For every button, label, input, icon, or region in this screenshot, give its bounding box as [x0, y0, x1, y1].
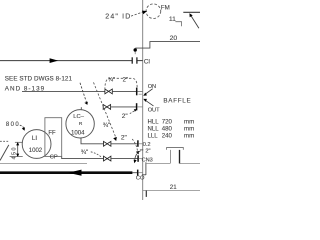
wire stub below dot [134, 52, 136, 54]
wire tank wall vertical [142, 0, 144, 200]
valve bowtie on line [105, 89, 112, 94]
svg-text:1004: 1004 [71, 129, 85, 136]
leader dashed 800 [20, 125, 24, 129]
wire lower horizontal left [0, 163, 87, 165]
end bar on nozzle line [136, 88, 138, 96]
svg-text:FM: FM [161, 5, 170, 12]
arrowhead long leader [113, 137, 117, 141]
dimension 450 arrow down [16, 154, 19, 158]
valve flange bar left on top pipe [131, 57, 133, 63]
svg-text:2": 2" [121, 134, 128, 141]
svg-text:¾": ¾" [81, 149, 89, 156]
svg-text:240: 240 [162, 133, 173, 140]
dimension 450 line [17, 143, 19, 156]
svg-text:480: 480 [162, 126, 173, 133]
svg-text:LI: LI [32, 135, 37, 142]
dimension 450 arrow up [16, 142, 19, 146]
svg-text:OUT: OUT [148, 108, 160, 114]
label HLL 720 mm [148, 119, 195, 140]
wire CN3 bottom tick [142, 174, 146, 176]
wire row2 stub [139, 158, 143, 160]
wire pipe tail [132, 172, 137, 174]
arrowhead of 24 ID leader [142, 11, 147, 15]
svg-text:mm: mm [184, 119, 194, 126]
leader ON [145, 89, 153, 95]
leader dashed 24 ID to FM [131, 12, 143, 16]
stub below line 21 [145, 191, 147, 197]
arrowhead leader to row2 [134, 160, 137, 164]
leader dashed note to LC [80, 83, 87, 103]
svg-text:2": 2" [122, 113, 129, 120]
leader long dashed diagonal [94, 82, 117, 138]
arrowhead on line 11 leader [189, 13, 192, 17]
svg-text:21: 21 [170, 184, 177, 191]
svg-text:1002: 1002 [29, 148, 43, 154]
wire CN3 drop vertical [145, 162, 147, 175]
wire bottom line 21 [143, 190, 200, 192]
wire after bowtie [112, 90, 136, 92]
arrowhead note leader [84, 102, 87, 105]
svg-text:450: 450 [11, 148, 17, 160]
svg-text:R: R [79, 121, 83, 127]
valve bowtie row1 [104, 141, 111, 146]
svg-text:¾": ¾" [108, 78, 115, 84]
svg-text:¾": ¾" [103, 122, 111, 129]
dash before 2 inch [140, 149, 143, 151]
svg-text:2": 2" [123, 78, 128, 84]
svg-text:SEE STD DWGS 8-121: SEE STD DWGS 8-121 [5, 76, 73, 83]
junction dot node [134, 48, 137, 51]
svg-text:NLL: NLL [148, 126, 160, 133]
svg-text:HLL: HLL [148, 119, 160, 126]
svg-text:20: 20 [170, 35, 178, 42]
wire row y107 [111, 106, 136, 108]
svg-text:BAFFLE: BAFFLE [163, 98, 190, 105]
svg-text:mm: mm [184, 126, 194, 133]
dimension tick top [15, 141, 23, 143]
svg-text:800: 800 [6, 122, 19, 128]
valve bowtie row2 [104, 156, 111, 161]
wire branch line 20 [135, 42, 200, 49]
end bar row y107 [136, 103, 138, 110]
svg-text:24" ID: 24" ID [105, 14, 130, 21]
dimension tick bottom [10, 156, 23, 158]
arrowhead 2 inch lower [136, 151, 139, 155]
arrowhead 2 inch upper [134, 109, 137, 112]
weir cap tick right [182, 148, 184, 150]
wall tick near ON arrows [139, 93, 142, 95]
svg-text:0.2: 0.2 [143, 142, 151, 148]
wire top right line 11 [183, 11, 200, 13]
svg-text:LC–: LC– [73, 114, 84, 120]
weir post right dark [179, 150, 181, 164]
svg-text:CO: CO [136, 176, 145, 182]
arrowhead OUT [143, 99, 147, 102]
leader curve 2 inch to row2 [135, 151, 141, 160]
nozzle row 1 from LC1004 [81, 138, 143, 158]
instrument LC 1004 circle [66, 110, 94, 138]
wire row1 stub [139, 143, 143, 145]
wire row1 right [111, 143, 137, 145]
ramp diagonal [0, 145, 9, 161]
dashed level line left [0, 140, 9, 142]
tick at LC circle top [80, 107, 82, 110]
wire weir base left [146, 163, 170, 165]
weir cap line [166, 147, 184, 149]
leader diagonal to line 11 [191, 15, 199, 28]
dashed hose arc [105, 78, 137, 90]
wire drop from LC [81, 138, 104, 144]
svg-text:2": 2" [145, 149, 150, 155]
wire stub after bar [138, 172, 142, 174]
wire weir base right [180, 163, 200, 165]
svg-text:FF: FF [48, 131, 56, 137]
arrowhead 800 leader [22, 127, 25, 130]
end bar main pipe [137, 170, 139, 176]
wire top pipe stub to wall [137, 60, 142, 62]
wire top influent pipe [0, 60, 132, 62]
instrument FM circle [146, 4, 161, 19]
weir post left [170, 150, 172, 164]
valve flange bar right on top pipe [136, 57, 138, 63]
leader elbow from 11 [175, 22, 181, 27]
leader OUT [145, 100, 154, 106]
svg-text:Cl: Cl [144, 58, 150, 65]
flow arrow left on main pipe [68, 170, 82, 176]
leader dashed 3/4 to row2 [91, 152, 102, 158]
arrowhead ON [143, 93, 147, 96]
wire row2 left [62, 156, 104, 158]
leader dashed 2 inch lower [132, 139, 137, 152]
svg-text:LLL: LLL [148, 133, 159, 140]
wire stub to wall [137, 90, 142, 92]
end bar row2 [137, 155, 139, 162]
svg-text:CP: CP [50, 154, 58, 160]
end bar row1 [137, 140, 139, 147]
leader dashed 2 inch upper [130, 110, 135, 113]
wire note underline pipe [22, 90, 105, 92]
instrument LI 1002 circle [22, 130, 51, 159]
wire row2 right [111, 158, 138, 160]
main effluent pipe [0, 171, 132, 174]
svg-text:CN3: CN3 [142, 157, 153, 163]
weir cap tick left [166, 148, 168, 150]
svg-text:720: 720 [162, 119, 173, 126]
nozzle row 2 bowtie line [62, 155, 143, 162]
svg-text:11: 11 [169, 16, 176, 23]
wire stub row y107 to wall [137, 106, 142, 108]
box FF device [45, 118, 62, 157]
valve bowtie row y107 [103, 105, 110, 110]
flow arrow on top pipe [50, 58, 59, 63]
svg-text:mm: mm [184, 133, 194, 140]
